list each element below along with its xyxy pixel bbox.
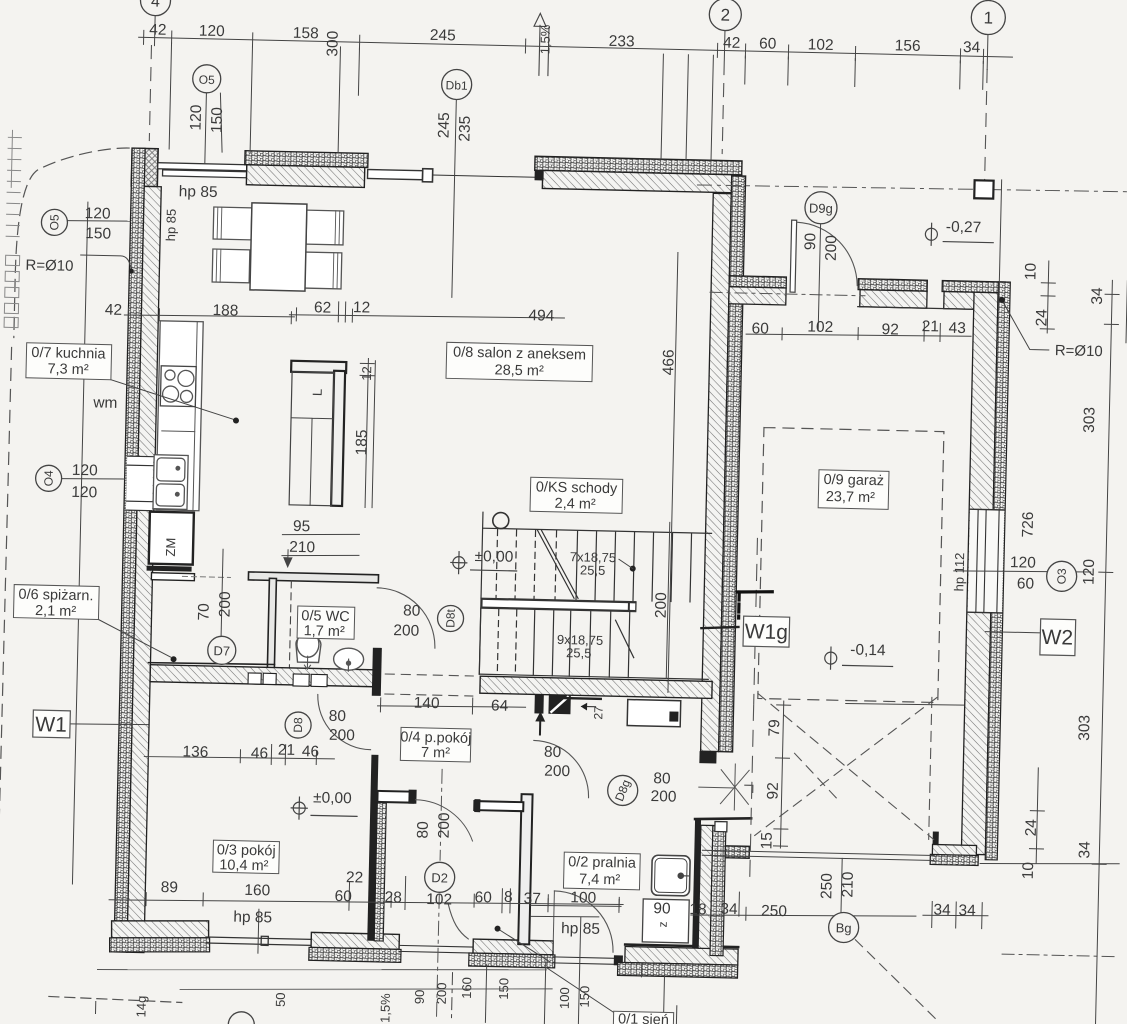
thick L near W1g: [737, 591, 773, 619]
svg-text:22: 22: [346, 869, 364, 886]
svg-text:W1g: W1g: [744, 620, 788, 644]
svg-text:1,7 m²: 1,7 m²: [304, 623, 346, 640]
svg-text:D7: D7: [213, 643, 230, 658]
D9g garage rear door: [790, 220, 797, 292]
pokoj east wall: [367, 755, 417, 942]
svg-text:60: 60: [474, 889, 492, 906]
svg-text:0/1 sień: 0/1 sień: [618, 1011, 669, 1024]
svg-text:60: 60: [1017, 575, 1035, 592]
svg-text:21: 21: [921, 318, 939, 335]
right column near garage: 10/24: [1047, 261, 1049, 333]
south window 1 (pokoj): [206, 935, 311, 946]
garage top wall pier2: [858, 279, 928, 309]
svg-text:27: 27: [591, 706, 605, 720]
svg-text:7,3 m²: 7,3 m²: [47, 361, 89, 378]
svg-text:79: 79: [766, 719, 783, 737]
right main 34/303/120 line: [1095, 280, 1112, 1024]
svg-text:L: L: [310, 389, 325, 397]
axis 4 dash: [149, 46, 151, 141]
svg-text:D2: D2: [431, 870, 448, 885]
beam over opening: [367, 167, 534, 184]
circle 3 at bottom edge: [228, 1012, 255, 1024]
svg-text:92: 92: [765, 782, 782, 800]
136/46/21/46 chain: [144, 755, 334, 761]
svg-text:200: 200: [653, 592, 671, 619]
axis 1 dash: [985, 70, 988, 182]
ZM closet: [146, 512, 232, 582]
svg-text:466: 466: [660, 349, 678, 375]
svg-text:25,5: 25,5: [580, 562, 606, 578]
svg-text:136: 136: [182, 743, 208, 761]
svg-text:37: 37: [523, 890, 541, 907]
svg-text:188: 188: [212, 302, 238, 320]
spizarnia / WC top wall: [248, 572, 378, 583]
svg-text:2: 2: [720, 5, 730, 24]
svg-text:Bg: Bg: [836, 920, 852, 935]
svg-text:80: 80: [328, 708, 346, 725]
svg-text:2,1 m²: 2,1 m²: [35, 603, 77, 620]
svg-text:D9g: D9g: [809, 201, 833, 217]
svg-text:25,5: 25,5: [566, 645, 592, 661]
wc sink: [333, 648, 364, 672]
east wall of house (salon/garage): [698, 175, 748, 764]
kuchnia top dim 42/188: [124, 313, 294, 319]
svg-text:hp 85: hp 85: [163, 209, 179, 242]
34/34 bottom: [923, 914, 988, 916]
svg-text:hp 85: hp 85: [561, 920, 600, 938]
garage top wall pier1: [729, 276, 787, 305]
svg-text:80: 80: [544, 744, 562, 761]
D8g pralnia door: [533, 740, 590, 797]
W1 leader: [70, 723, 148, 726]
entrance threshold: [553, 957, 620, 965]
black posts in hall: [534, 694, 570, 714]
svg-text:140: 140: [413, 695, 440, 713]
svg-text:60: 60: [759, 35, 777, 52]
svg-text:23,7 m²: 23,7 m²: [826, 489, 876, 506]
svg-text:43: 43: [948, 320, 966, 337]
svg-text:34: 34: [1076, 841, 1093, 859]
svg-text:wm: wm: [92, 394, 117, 412]
wall band under stairs / salon bottom: [480, 676, 712, 698]
svg-text:z: z: [656, 921, 670, 927]
svg-text:18: 18: [689, 901, 707, 918]
svg-text:D8: D8: [291, 717, 305, 733]
svg-text:28: 28: [384, 889, 402, 906]
svg-text:50: 50: [273, 992, 288, 1007]
svg-text:80: 80: [403, 602, 421, 619]
svg-text:245: 245: [430, 27, 456, 45]
axis 2 dash: [722, 62, 724, 154]
svg-text:250: 250: [761, 903, 788, 921]
circle leaders: [205, 93, 224, 164]
svg-text:200: 200: [434, 982, 449, 1004]
svg-text:303: 303: [1076, 715, 1094, 741]
svg-text:1: 1: [983, 8, 993, 27]
62/12/494 chain: [289, 312, 564, 321]
svg-text:90: 90: [653, 900, 671, 917]
svg-text:120: 120: [188, 104, 206, 131]
kitchen sink: [153, 455, 188, 510]
pier in top wall: [244, 151, 368, 188]
hp85 line bottom: [531, 915, 599, 918]
svg-text:hp 85: hp 85: [233, 909, 272, 927]
svg-text:200: 200: [650, 788, 677, 806]
svg-text:89: 89: [161, 879, 179, 896]
axis W1g vertical: [750, 538, 758, 884]
svg-text:235: 235: [456, 116, 474, 142]
Bg diagonal: [789, 753, 945, 1021]
garage gate threshold: [702, 850, 934, 860]
svg-text:34: 34: [958, 902, 976, 919]
svg-text:0/KS schody: 0/KS schody: [536, 479, 618, 497]
neighbour steps along left boundary: [4, 130, 22, 327]
hp112 window line: [846, 702, 964, 706]
svg-text:60: 60: [751, 320, 769, 337]
svg-text:200: 200: [823, 235, 841, 262]
svg-text:42: 42: [105, 302, 123, 319]
svg-text:250: 250: [818, 873, 836, 900]
95/210 dims (wc): [282, 533, 360, 558]
svg-text:hp 85: hp 85: [179, 183, 218, 201]
top wall right segment: [534, 156, 742, 193]
svg-text:200: 200: [393, 622, 420, 640]
svg-text:W2: W2: [1041, 626, 1073, 650]
svg-text:12: 12: [359, 366, 374, 381]
svg-text:7,4 m²: 7,4 m²: [579, 871, 621, 888]
ground line right: [980, 861, 1119, 867]
svg-text:34: 34: [1089, 287, 1106, 305]
svg-text:120: 120: [1080, 558, 1098, 585]
garage dashed rect: [758, 428, 944, 703]
svg-text:95: 95: [293, 518, 311, 535]
kitchen island dims 12/185: [357, 358, 374, 507]
svg-text:210: 210: [289, 539, 316, 557]
hall niche line + arrow: [565, 698, 601, 710]
svg-text:W1: W1: [35, 713, 67, 737]
sien south wall: [614, 944, 739, 978]
south wall: left corner + pier1: [109, 919, 210, 955]
garage top wall pier3 + NE corner: [858, 279, 1006, 310]
svg-text:R=Ø10: R=Ø10: [25, 257, 73, 275]
svg-text:160: 160: [459, 977, 474, 999]
140/64 chain: [378, 704, 526, 709]
sien 0/1 leader: [640, 963, 642, 977]
pralnia east wall: [692, 817, 751, 956]
svg-text:10: 10: [1022, 262, 1039, 280]
svg-text:Db1: Db1: [445, 78, 468, 93]
svg-text:46: 46: [251, 745, 269, 762]
svg-text:1,5%: 1,5%: [537, 24, 553, 54]
svg-text:O5: O5: [199, 73, 216, 87]
svg-text:70: 70: [195, 603, 212, 621]
svg-text:O3: O3: [1054, 568, 1068, 585]
WC divider wall: [267, 578, 291, 669]
pralnia washbasin: [651, 855, 690, 896]
svg-text:200: 200: [436, 812, 454, 839]
svg-text:hp 112: hp 112: [951, 552, 967, 591]
Bg leader: [841, 858, 842, 912]
extension lines from top chain: [169, 43, 359, 155]
svg-text:-0,14: -0,14: [850, 642, 886, 660]
dining table: [212, 202, 344, 292]
svg-text:46: 46: [302, 743, 320, 760]
svg-text:90: 90: [802, 232, 819, 250]
200 stair dim: [666, 522, 670, 678]
svg-text:7 m²: 7 m²: [421, 745, 451, 762]
left O4 dim: [62, 478, 125, 480]
svg-text:15: 15: [758, 832, 775, 850]
leaders with dots: [110, 380, 235, 420]
pralnia west wall: [471, 793, 532, 944]
svg-text:300: 300: [324, 30, 342, 57]
svg-text:100: 100: [557, 987, 572, 1009]
left exterior wall: [114, 148, 162, 952]
svg-text:156: 156: [895, 37, 921, 55]
svg-text:64: 64: [491, 697, 509, 714]
svg-text:200: 200: [329, 727, 356, 745]
svg-text:120: 120: [85, 205, 112, 223]
garage top chain 60/102/92/21/43: [746, 331, 971, 339]
svg-text:150: 150: [496, 978, 511, 1000]
svg-text:494: 494: [528, 307, 555, 325]
O3 dim: [954, 569, 1091, 574]
top chain: [139, 37, 1013, 57]
svg-text:10: 10: [1020, 861, 1037, 879]
svg-text:8: 8: [504, 889, 513, 906]
square post top right: [974, 180, 993, 198]
svg-text:42: 42: [723, 35, 741, 52]
90/z niche: [642, 899, 689, 943]
svg-text:24: 24: [1023, 819, 1040, 837]
svg-text:303: 303: [1081, 407, 1099, 433]
svg-text:0/6 spiżarn.: 0/6 spiżarn.: [18, 587, 93, 605]
svg-text:92: 92: [881, 321, 899, 338]
svg-text:34: 34: [933, 902, 951, 919]
black door post (hall): [372, 648, 382, 696]
svg-text:28,5 m²: 28,5 m²: [494, 362, 544, 379]
svg-text:10,4 m²: 10,4 m²: [219, 857, 269, 874]
spizarnia D7 leader: [221, 549, 223, 637]
bottom right 24/10: [1036, 768, 1038, 863]
svg-text:102: 102: [426, 891, 452, 909]
svg-text:120: 120: [72, 462, 99, 480]
D8t wc door: [376, 588, 436, 648]
svg-text:O5: O5: [47, 214, 61, 231]
south pier 2: [309, 932, 402, 962]
svg-text:120: 120: [1010, 554, 1037, 572]
up arrow (stairs start): [535, 711, 546, 734]
D2 axis dashdot: [436, 769, 442, 1021]
svg-text:200: 200: [544, 763, 571, 781]
svg-text:0/7 kuchnia: 0/7 kuchnia: [31, 345, 106, 363]
dashdot through post: [697, 182, 1127, 195]
bottom verticals: [451, 973, 452, 1022]
svg-text:0/8 salon z aneksem: 0/8 salon z aneksem: [453, 344, 586, 363]
svg-text:1,5%: 1,5%: [377, 993, 393, 1023]
garage east wall: [961, 281, 1010, 860]
svg-text:42: 42: [149, 21, 167, 38]
466 vertical dim: [668, 253, 678, 693]
100 dim pralnia: [531, 904, 621, 907]
svg-text:0/9 garaż: 0/9 garaż: [823, 472, 884, 489]
newel circle: [493, 512, 509, 528]
svg-text:158: 158: [293, 25, 319, 43]
svg-text:120: 120: [71, 484, 98, 502]
79/92/15 garage vertical: [780, 701, 783, 848]
top-left corner block: [131, 148, 158, 187]
svg-text:102: 102: [807, 318, 833, 336]
right bottom dashdot: [1002, 954, 1117, 957]
svg-text:185: 185: [353, 429, 371, 455]
toilet: [295, 631, 321, 670]
svg-text:102: 102: [808, 36, 834, 54]
svg-text:233: 233: [609, 33, 635, 51]
svg-text:150: 150: [577, 986, 592, 1008]
1,5% arrow top: [533, 13, 549, 75]
svg-text:12: 12: [353, 299, 371, 316]
terrace edge line: [97, 960, 546, 980]
garage SE corner: [930, 831, 979, 865]
svg-text:34: 34: [963, 39, 981, 56]
svg-text:62: 62: [314, 299, 332, 316]
window O5 top wall: [158, 163, 247, 178]
svg-text:150: 150: [209, 107, 227, 134]
svg-text:21: 21: [278, 742, 296, 759]
svg-text:80: 80: [415, 821, 432, 839]
svg-text:150: 150: [85, 225, 112, 243]
svg-text:ZM: ZM: [163, 538, 178, 557]
svg-text:-0,27: -0,27: [946, 219, 982, 237]
kitchen counter: [156, 321, 203, 511]
left O5 dim: [67, 220, 130, 222]
svg-text:0/2 pralnia: 0/2 pralnia: [568, 854, 637, 872]
svg-text:±0,00: ±0,00: [474, 548, 513, 566]
svg-text:210: 210: [839, 871, 857, 898]
svg-text:R=Ø10: R=Ø10: [1055, 342, 1103, 360]
svg-text:245: 245: [435, 112, 453, 138]
kitchen island L: [288, 359, 375, 508]
svg-text:120: 120: [199, 23, 226, 41]
south door D2 threshold: [399, 945, 473, 953]
svg-text:160: 160: [244, 882, 271, 900]
south pier 3 (sien west): [469, 939, 556, 968]
small solid X (drain): [698, 763, 749, 810]
svg-text:34: 34: [720, 901, 738, 918]
svg-text:726: 726: [1020, 511, 1038, 537]
svg-text:100: 100: [570, 889, 597, 907]
garage X region: [755, 693, 937, 839]
svg-text:80: 80: [653, 770, 671, 787]
svg-text:200: 200: [217, 591, 235, 618]
wardrobe hall: [627, 700, 681, 727]
svg-text:24: 24: [1033, 309, 1050, 327]
D2 door leader curve: [447, 903, 469, 938]
svg-text:14g: 14g: [133, 996, 148, 1018]
svg-text:2,4 m²: 2,4 m²: [554, 496, 596, 513]
D8 pokoj door: [317, 694, 372, 749]
dash-dot line garage gate level: [710, 292, 865, 296]
svg-text:D8t: D8t: [443, 608, 457, 628]
svg-text:O4: O4: [41, 470, 55, 487]
pralnia right chain 18/34/250: [691, 911, 916, 920]
bottom chain y908: [109, 893, 623, 912]
svg-text:90: 90: [412, 989, 427, 1004]
W2 line: [985, 632, 1040, 633]
wall band below spizarnia (with G G boxes): [148, 662, 374, 688]
svg-text:4: 4: [151, 0, 160, 11]
entrance sien door: [553, 891, 614, 952]
svg-text:±0,00: ±0,00: [313, 789, 352, 807]
svg-text:60: 60: [334, 888, 352, 905]
